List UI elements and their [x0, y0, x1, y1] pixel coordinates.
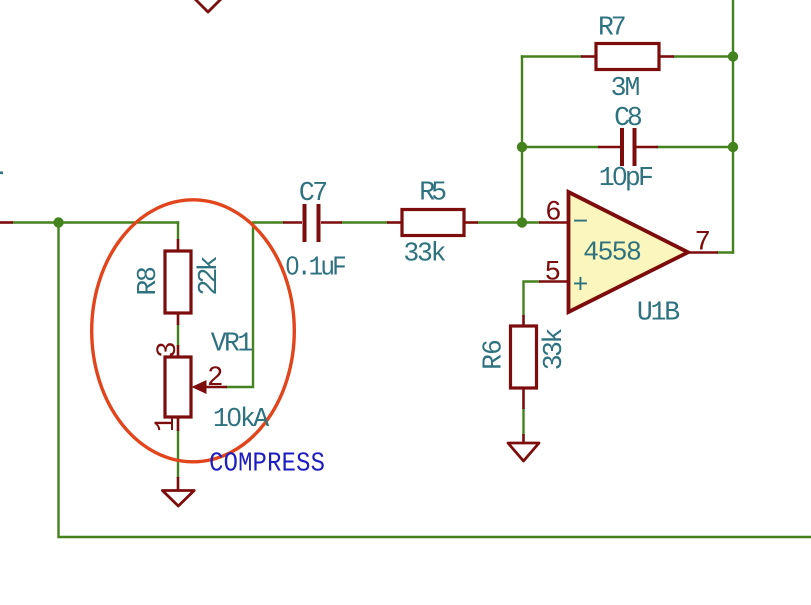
svg-text:3M: 3M — [611, 73, 641, 103]
svg-text:5: 5 — [545, 258, 562, 289]
svg-text:22k: 22k — [194, 255, 224, 295]
svg-text:R7: R7 — [598, 13, 627, 43]
svg-text:R5: R5 — [419, 178, 447, 208]
svg-text:2: 2 — [207, 363, 224, 394]
svg-text:−: − — [573, 208, 589, 238]
svg-text:10kA: 10kA — [213, 404, 269, 434]
svg-text:33k: 33k — [539, 328, 569, 371]
svg-text:U1B: U1B — [637, 298, 680, 328]
svg-text:C8: C8 — [614, 103, 643, 133]
svg-text:R8: R8 — [133, 266, 163, 296]
svg-text:VR1: VR1 — [211, 329, 254, 359]
svg-text:C7: C7 — [299, 178, 328, 208]
svg-text:4558: 4558 — [583, 238, 642, 268]
svg-text:1: 1 — [151, 416, 182, 433]
svg-text:R6: R6 — [478, 339, 508, 370]
svg-text:+: + — [573, 271, 589, 301]
svg-text:10pF: 10pF — [599, 163, 654, 193]
svg-text:33k: 33k — [403, 239, 446, 269]
svg-text:3: 3 — [153, 341, 184, 358]
svg-text:COMPRESS: COMPRESS — [209, 448, 325, 478]
svg-text:6: 6 — [545, 198, 562, 229]
svg-text:7: 7 — [695, 227, 712, 258]
